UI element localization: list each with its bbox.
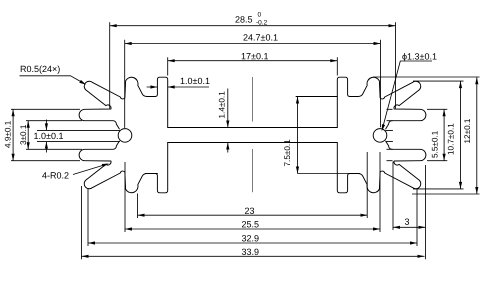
- svg-text:28.5: 28.5: [235, 15, 253, 25]
- dimension 10.7±0.1 capsule fin tips span: [460, 81, 462, 189]
- svg-text:10.7±0.1: 10.7±0.1: [446, 123, 455, 155]
- svg-text:12±0.1: 12±0.1: [463, 118, 472, 143]
- svg-text:17±0.1: 17±0.1: [241, 51, 268, 61]
- dimension 23: [138, 214, 368, 216]
- heatsink profile: top-left tab and end wall: [147, 77, 168, 127]
- dimension 25.5: [125, 228, 380, 230]
- heatsink profile: top surface segment / 7.5 extension: [296, 96, 337, 98]
- dimension 5.5±0.1 right comb teeth span: [443, 109, 445, 160]
- dimension 33.9: [82, 255, 425, 257]
- right comb teeth inner extensions: [387, 109, 393, 160]
- svg-text:33.9: 33.9: [241, 247, 259, 257]
- heatsink profile: slot floor line: [168, 142, 338, 144]
- heatsink profile: top-right tab and end wall: [337, 77, 358, 127]
- slot lines to left hole (and 1.0 dim extension): [37, 130, 120, 141]
- heatsink profile: bottom-right tab and end wall: [337, 143, 358, 193]
- svg-text:3: 3: [404, 217, 409, 227]
- svg-text:0: 0: [257, 12, 261, 19]
- heatsink profile: bottom-right fin cluster (crest, slot, capsule fin, comb tooth): [358, 141, 426, 193]
- svg-text:ϕ1.3±0.1: ϕ1.3±0.1: [402, 52, 437, 62]
- dimension 1.0±0.1 top tab width: [147, 86, 209, 88]
- heatsink profile: bottom-left tab and end wall: [147, 143, 168, 193]
- heatsink profile: top-left fin cluster (crest, slot, capsule fin, comb tooth): [79, 77, 147, 129]
- mounting hole phi1.3 left: [118, 129, 132, 143]
- svg-text:32.9: 32.9: [241, 233, 259, 243]
- heatsink profile: top-right fin cluster (crest, slot, capsule fin, comb tooth): [358, 77, 426, 129]
- slot lines from right hole: [386, 130, 393, 141]
- heatsink profile: bottom-left fin cluster (crest, slot, capsule fin, comb tooth): [79, 141, 147, 193]
- dimension 28.5 0/-0.2 overall top: [110, 25, 396, 27]
- svg-text:25.5: 25.5: [241, 219, 259, 229]
- dimension 4.9±0.1 left comb span: [12, 109, 14, 160]
- vertical centerline upper: [251, 77, 253, 122]
- vertical centerline lower: [251, 149, 253, 192]
- svg-text:3±0.1: 3±0.1: [19, 124, 28, 145]
- dimension 17±0.1 plate width: [168, 60, 338, 62]
- svg-text:1.0±0.1: 1.0±0.1: [33, 131, 63, 141]
- heatsink profile: top plate bottom surface: [168, 127, 338, 129]
- svg-text:4.9±0.1: 4.9±0.1: [4, 120, 13, 148]
- dimension 3±0.1 left comb inner span: [27, 121, 29, 150]
- dimension 3 right comb protrusion: [393, 226, 426, 228]
- svg-text:23: 23: [244, 206, 254, 216]
- svg-text:-0.2: -0.2: [256, 20, 268, 27]
- dimension 12±0.1 overall height: [476, 77, 478, 194]
- svg-text:7.5±0.1: 7.5±0.1: [283, 139, 292, 167]
- svg-text:24.7±0.1: 24.7±0.1: [243, 33, 278, 43]
- svg-text:4-R0.2: 4-R0.2: [42, 171, 69, 181]
- dimension 24.7±0.1: [125, 43, 381, 45]
- dimension 1.0±0.1 left slot height: [45, 120, 47, 153]
- svg-text:1.0±0.1: 1.0±0.1: [180, 76, 210, 86]
- svg-text:1.4±0.1: 1.4±0.1: [217, 91, 226, 119]
- dimension 7.5±0.1 surface to feet: [297, 97, 299, 174]
- svg-text:R0.5(24×): R0.5(24×): [20, 64, 60, 74]
- mounting hole phi1.3 right: [373, 129, 387, 143]
- svg-text:5.5±0.1: 5.5±0.1: [430, 130, 439, 158]
- dimension 32.9: [88, 242, 417, 244]
- left feet bottom surface: [145, 173, 157, 175]
- dimension 1.4±0.1 slot height: [227, 89, 229, 153]
